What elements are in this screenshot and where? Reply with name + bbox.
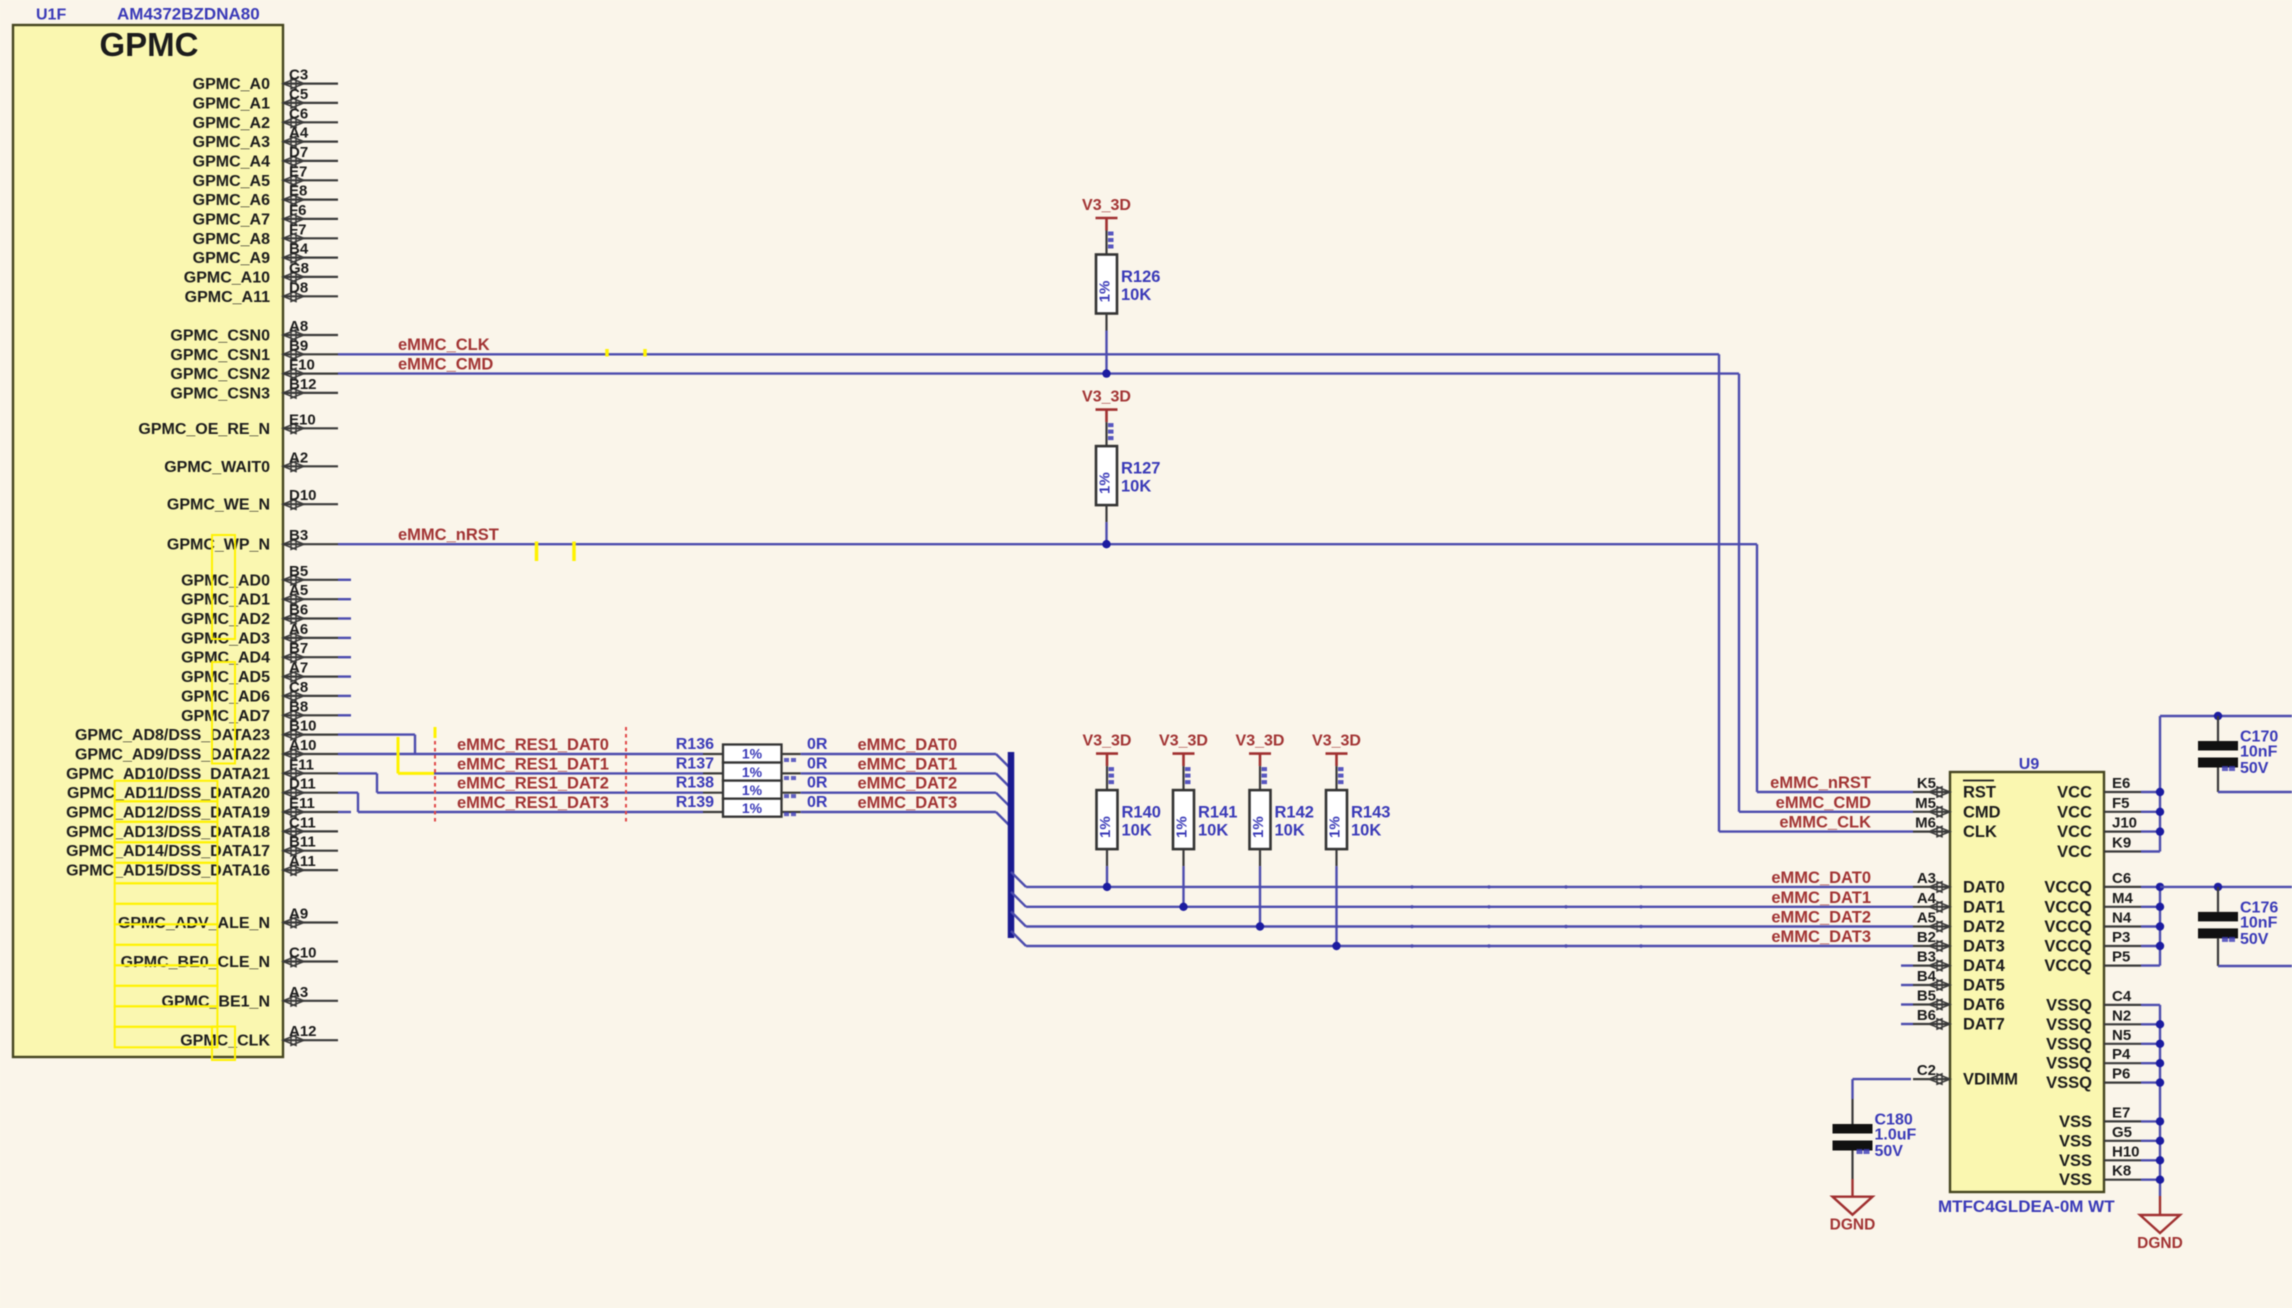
- pin GPMC_AD0 (B5): [181, 563, 338, 590]
- svg-text:C10: C10: [289, 945, 317, 962]
- pin GPMC_AD10/DSS_DATA21 (F11): [66, 756, 338, 783]
- svg-text:K5: K5: [1917, 775, 1936, 792]
- wire stub on GPMC_AD1: [338, 598, 351, 600]
- svg-text:E10: E10: [289, 411, 316, 428]
- svg-text:GPMC_CSN1: GPMC_CSN1: [170, 347, 270, 364]
- svg-text:V3_3D: V3_3D: [1312, 733, 1361, 750]
- svg-text:E8: E8: [289, 183, 307, 200]
- svg-text:VCC: VCC: [2057, 823, 2092, 841]
- svg-text:V3_3D: V3_3D: [1082, 197, 1131, 214]
- svg-text:J10: J10: [2112, 815, 2137, 832]
- wire VCC net vertical: [2141, 791, 2160, 793]
- svg-text:0R: 0R: [807, 775, 828, 792]
- svg-text:10nF: 10nF: [2240, 744, 2278, 761]
- svg-text:C6: C6: [289, 105, 308, 122]
- svg-text:E6: E6: [2112, 775, 2130, 792]
- svg-text:10nF: 10nF: [2240, 914, 2278, 931]
- svg-text:D10: D10: [289, 487, 317, 504]
- pin GPMC_ADV_ALE_N (A9): [118, 906, 338, 933]
- wire VCCQ to right edge: [2160, 886, 2292, 888]
- pin GPMC_A4 (D7): [193, 144, 338, 171]
- U9 pin VSSQ (N2): [2046, 1007, 2141, 1034]
- wire VDIMM to C180: [1853, 1078, 1912, 1080]
- U9 pin VSS (G5): [2059, 1124, 2141, 1151]
- wire eMMC_RES1_DAT2 from GPMC_AD10: [338, 772, 377, 774]
- U9 pin VSS (H10): [2059, 1143, 2141, 1170]
- svg-text:0R: 0R: [807, 736, 828, 753]
- pin GPMC_AD2 (B6): [181, 602, 338, 629]
- pin GPMC_WP_N (B3): [167, 527, 338, 554]
- pin GPMC_A11 (D8): [185, 279, 338, 306]
- svg-text:D8: D8: [289, 279, 308, 296]
- svg-text:A4: A4: [1917, 890, 1937, 907]
- svg-text:1%: 1%: [742, 782, 763, 798]
- U9 pin VCC (E6): [2057, 775, 2141, 802]
- svg-text:R139: R139: [676, 794, 714, 811]
- svg-text:VSSQ: VSSQ: [2046, 1074, 2092, 1092]
- pin GPMC_AD3 (A6): [181, 621, 338, 648]
- svg-text:10K: 10K: [1121, 286, 1151, 304]
- svg-text:K8: K8: [2112, 1163, 2131, 1180]
- U9 pin VCCQ (C6): [2044, 870, 2141, 897]
- svg-text:GPMC_WE_N: GPMC_WE_N: [167, 497, 270, 514]
- U9 pin VCCQ (M4): [2044, 890, 2141, 917]
- pin GPMC_CSN2 (F10): [170, 357, 338, 384]
- svg-text:DGND: DGND: [2137, 1235, 2183, 1252]
- svg-text:GPMC_A11: GPMC_A11: [185, 289, 270, 306]
- svg-text:F10: F10: [289, 357, 315, 374]
- ground DGND at U9: [2159, 1196, 2161, 1215]
- U9 pin VCCQ (P3): [2044, 929, 2141, 956]
- pin GPMC_A10 (G8): [184, 260, 338, 287]
- U9 pin VSSQ (C4): [2046, 988, 2141, 1015]
- pin GPMC_A1 (C5): [193, 86, 338, 113]
- pin GPMC_AD7 (B8): [181, 698, 338, 725]
- svg-text:DAT5: DAT5: [1963, 977, 2005, 995]
- svg-text:B6: B6: [1917, 1007, 1936, 1024]
- resistor R143 10K pull-up on eMMC_DAT3 with V3_3D: [1312, 733, 1390, 951]
- svg-text:eMMC_RES1_DAT2: eMMC_RES1_DAT2: [457, 775, 609, 793]
- U9 pin VSSQ (P6): [2046, 1066, 2141, 1093]
- resistor R136 0R series: [676, 736, 828, 763]
- U9 pin VCC (K9): [2057, 835, 2141, 862]
- svg-text:B3: B3: [289, 527, 308, 544]
- pin GPMC_A3 (A4): [193, 125, 338, 152]
- svg-text:C6: C6: [2112, 870, 2131, 887]
- pin GPMC_A6 (E8): [193, 183, 338, 210]
- svg-text:1%: 1%: [742, 764, 763, 780]
- svg-text:eMMC_DAT2: eMMC_DAT2: [1771, 909, 1871, 927]
- U9 pin DAT5 (B4): [1913, 968, 2005, 995]
- U9 pin VCC (J10): [2057, 815, 2141, 842]
- svg-text:C5: C5: [289, 86, 308, 103]
- svg-text:F5: F5: [2112, 795, 2130, 812]
- svg-text:GPMC_WAIT0: GPMC_WAIT0: [164, 459, 270, 476]
- wire eMMC_RES1_DAT1 from GPMC_AD9 (highlighted jog): [338, 753, 415, 755]
- svg-text:F7: F7: [289, 221, 307, 238]
- pin GPMC_AD13/DSS_DATA18 (C11): [66, 814, 338, 841]
- svg-text:10K: 10K: [1198, 822, 1228, 840]
- svg-text:DAT2: DAT2: [1963, 918, 2005, 936]
- svg-text:VDIMM: VDIMM: [1963, 1071, 2018, 1089]
- wire from C176 bottom to right edge: [2218, 965, 2292, 967]
- svg-text:B5: B5: [289, 563, 308, 580]
- resistor R138 0R series: [676, 775, 828, 799]
- svg-text:GPMC: GPMC: [100, 26, 199, 63]
- U9 pin CMD (M5): [1913, 795, 2001, 822]
- svg-text:A4: A4: [289, 125, 309, 142]
- svg-text:VSS: VSS: [2059, 1152, 2092, 1170]
- U9 pin VCC (F5): [2057, 795, 2141, 822]
- svg-text:GPMC_AD5: GPMC_AD5: [181, 669, 270, 686]
- svg-text:E11: E11: [289, 795, 315, 812]
- svg-text:10K: 10K: [1275, 822, 1305, 840]
- junction dots VSSQ/VSS: [2156, 1020, 2164, 1028]
- svg-text:C8: C8: [289, 679, 308, 696]
- svg-text:C11: C11: [289, 814, 316, 831]
- IC block U1F GPMC (AM4372BZDNA80): [13, 25, 283, 1057]
- svg-text:GPMC_AD1: GPMC_AD1: [181, 592, 270, 609]
- pin GPMC_AD15/DSS_DATA16 (A11): [66, 853, 338, 880]
- resistor R141 10K pull-up on eMMC_DAT1 with V3_3D: [1159, 733, 1237, 911]
- bus bar (thick vertical): [1008, 752, 1015, 938]
- svg-text:eMMC_RES1_DAT0: eMMC_RES1_DAT0: [457, 736, 609, 754]
- svg-text:R126: R126: [1121, 268, 1160, 286]
- svg-text:CLK: CLK: [1963, 823, 1997, 841]
- svg-text:AM4372BZDNA80: AM4372BZDNA80: [117, 5, 260, 24]
- capacitor C176 10nF 50V: [2198, 887, 2278, 966]
- svg-text:DAT3: DAT3: [1963, 938, 2005, 956]
- svg-text:0R: 0R: [807, 794, 828, 811]
- svg-text:eMMC_CMD: eMMC_CMD: [1776, 794, 1871, 812]
- wire eMMC_DAT3 from bus to U9: [1011, 931, 1026, 946]
- svg-text:D11: D11: [289, 776, 316, 793]
- pin GPMC_AD14/DSS_DATA17 (B11): [66, 834, 338, 861]
- svg-text:GPMC_A3: GPMC_A3: [193, 134, 270, 151]
- svg-text:D7: D7: [289, 144, 308, 161]
- pin GPMC_A9 (B4): [193, 241, 338, 268]
- svg-text:GPMC_A4: GPMC_A4: [193, 153, 270, 170]
- svg-text:P3: P3: [2112, 929, 2130, 946]
- svg-text:eMMC_nRST: eMMC_nRST: [1770, 774, 1871, 792]
- svg-text:VSS: VSS: [2059, 1132, 2092, 1150]
- svg-text:B7: B7: [289, 640, 308, 657]
- svg-text:B9: B9: [289, 337, 308, 354]
- svg-text:VCCQ: VCCQ: [2044, 957, 2092, 975]
- svg-text:B4: B4: [289, 241, 309, 258]
- pin GPMC_WAIT0 (A2): [164, 449, 338, 476]
- svg-text:N4: N4: [2112, 910, 2132, 927]
- U9 pin DAT7 (B6): [1913, 1007, 2005, 1034]
- pin GPMC_A2 (C6): [193, 105, 338, 132]
- wire eMMC_DAT2 from bus to U9: [1011, 912, 1026, 927]
- U9 pin RST (K5): [1913, 775, 1996, 802]
- pin GPMC_A8 (F7): [193, 221, 338, 248]
- svg-text:P6: P6: [2112, 1066, 2130, 1083]
- svg-text:GPMC_WP_N: GPMC_WP_N: [167, 537, 270, 554]
- capacitor C170 10nF 50V: [2198, 716, 2278, 792]
- svg-text:GPMC_A8: GPMC_A8: [193, 231, 270, 248]
- svg-text:B5: B5: [1917, 988, 1936, 1005]
- svg-text:R136: R136: [676, 736, 714, 753]
- svg-text:1%: 1%: [1097, 472, 1114, 494]
- svg-text:10K: 10K: [1122, 822, 1152, 840]
- svg-text:GPMC_CSN3: GPMC_CSN3: [170, 385, 270, 402]
- svg-text:A10: A10: [289, 737, 317, 754]
- svg-text:M5: M5: [1915, 795, 1936, 812]
- svg-text:RST: RST: [1963, 784, 1996, 802]
- svg-text:G5: G5: [2112, 1124, 2132, 1141]
- svg-text:GPMC_AD12/DSS_DATA19: GPMC_AD12/DSS_DATA19: [66, 805, 270, 822]
- svg-text:R141: R141: [1198, 804, 1237, 822]
- junction dots VCC: [2156, 788, 2164, 796]
- svg-text:VSSQ: VSSQ: [2046, 1055, 2092, 1073]
- svg-text:DGND: DGND: [1830, 1217, 1876, 1234]
- svg-text:eMMC_RES1_DAT1: eMMC_RES1_DAT1: [457, 755, 609, 773]
- U9 pin VSSQ (N5): [2046, 1027, 2141, 1054]
- pin GPMC_CSN3 (B12): [170, 376, 338, 403]
- resistor R127 10K pull-up on eMMC_nRST with V3_3D: [1082, 389, 1160, 549]
- U9 pin VDIMM (C2): [1913, 1062, 2018, 1089]
- svg-text:P4: P4: [2112, 1046, 2131, 1063]
- svg-text:B2: B2: [1917, 929, 1936, 946]
- svg-text:GPMC_AD15/DSS_DATA16: GPMC_AD15/DSS_DATA16: [66, 863, 270, 880]
- svg-text:A11: A11: [289, 853, 316, 870]
- svg-text:10K: 10K: [1351, 822, 1381, 840]
- U9 pin CLK (M6): [1913, 815, 1997, 842]
- svg-text:GPMC_A7: GPMC_A7: [193, 211, 270, 228]
- junction dots VCCQ: [2156, 883, 2164, 891]
- svg-text:N5: N5: [2112, 1027, 2131, 1044]
- svg-text:U1F: U1F: [36, 7, 66, 24]
- wire VCCQ net vertical: [2141, 886, 2160, 888]
- svg-text:R138: R138: [676, 775, 714, 792]
- pin GPMC_A7 (F6): [193, 202, 338, 229]
- svg-text:10K: 10K: [1121, 478, 1151, 496]
- svg-text:VCCQ: VCCQ: [2044, 938, 2092, 956]
- highlight strip (yellow) over GPMC_WP_N..AD3 names: [212, 535, 235, 639]
- svg-text:V3_3D: V3_3D: [1159, 733, 1208, 750]
- svg-text:DAT0: DAT0: [1963, 878, 2005, 896]
- svg-text:eMMC_DAT0: eMMC_DAT0: [858, 736, 958, 754]
- wire eMMC_CMD from GPMC_CSN2: [338, 372, 1739, 374]
- svg-text:GPMC_OE_RE_N: GPMC_OE_RE_N: [138, 421, 270, 438]
- svg-text:A2: A2: [289, 449, 308, 466]
- svg-text:GPMC_A5: GPMC_A5: [193, 173, 270, 190]
- svg-text:C4: C4: [2112, 988, 2132, 1005]
- svg-text:A3: A3: [289, 984, 308, 1001]
- svg-text:VCC: VCC: [2057, 784, 2092, 802]
- U9 pin VSS (E7): [2059, 1104, 2141, 1131]
- svg-text:eMMC_nRST: eMMC_nRST: [398, 526, 499, 544]
- svg-text:B6: B6: [289, 602, 308, 619]
- pin GPMC_WE_N (D10): [167, 487, 338, 514]
- svg-text:VSSQ: VSSQ: [2046, 996, 2092, 1014]
- svg-text:50V: 50V: [1875, 1143, 1904, 1160]
- wire eMMC_nRST from GPMC_WP_N: [338, 543, 1757, 545]
- svg-text:A3: A3: [1917, 870, 1936, 887]
- svg-text:VCCQ: VCCQ: [2044, 918, 2092, 936]
- svg-text:R127: R127: [1121, 460, 1160, 478]
- wires from 0R resistors into bus: [801, 753, 996, 755]
- wire eMMC_RES1_DAT0 from GPMC_AD8: [338, 733, 415, 735]
- svg-text:VCC: VCC: [2057, 843, 2092, 861]
- svg-text:eMMC_RES1_DAT3: eMMC_RES1_DAT3: [457, 794, 609, 812]
- svg-text:GPMC_CSN2: GPMC_CSN2: [170, 366, 270, 383]
- svg-text:GPMC_AD13/DSS_DATA18: GPMC_AD13/DSS_DATA18: [66, 824, 270, 841]
- svg-text:R143: R143: [1351, 804, 1390, 822]
- wire eMMC_CLK from GPMC_CSN1: [338, 353, 1719, 355]
- svg-text:GPMC_AD6: GPMC_AD6: [181, 688, 270, 705]
- U9 pin VSS (K8): [2059, 1163, 2141, 1190]
- svg-text:VSS: VSS: [2059, 1171, 2092, 1189]
- svg-text:H10: H10: [2112, 1143, 2140, 1160]
- pin GPMC_A0 (C3): [193, 67, 338, 94]
- U9 pin DAT1 (A4): [1913, 890, 2005, 917]
- svg-text:GPMC_A6: GPMC_A6: [193, 192, 270, 209]
- svg-text:E7: E7: [289, 163, 307, 180]
- U9 pin DAT2 (A5): [1913, 910, 2005, 937]
- svg-text:M6: M6: [1915, 815, 1936, 832]
- svg-text:eMMC_DAT1: eMMC_DAT1: [858, 755, 958, 773]
- svg-text:B12: B12: [289, 376, 317, 393]
- wire stub on GPMC_AD3: [338, 637, 351, 639]
- highlight strip (yellow) at GPMC block bottom: [212, 1027, 235, 1061]
- ground DGND at C180: [1851, 1179, 1853, 1197]
- svg-text:1%: 1%: [1174, 816, 1191, 838]
- svg-text:0R: 0R: [807, 755, 828, 772]
- pin GPMC_AD12/DSS_DATA19 (E11): [66, 795, 338, 822]
- wire eMMC_DAT0 from bus to U9: [1011, 872, 1026, 887]
- svg-text:DAT6: DAT6: [1963, 996, 2005, 1014]
- svg-text:VCCQ: VCCQ: [2044, 878, 2092, 896]
- svg-text:VSSQ: VSSQ: [2046, 1035, 2092, 1053]
- U9 pin VSSQ (P4): [2046, 1046, 2141, 1073]
- svg-text:A6: A6: [289, 621, 308, 638]
- pin GPMC_AD8/DSS_DATA23 (B10): [75, 718, 338, 745]
- svg-text:DAT1: DAT1: [1963, 898, 2005, 916]
- wire stub on GPMC_AD7: [338, 714, 351, 716]
- highlight box stack (yellow) over GPMC_AD11..CLK rows: [115, 781, 218, 1048]
- svg-text:B4: B4: [1917, 968, 1937, 985]
- wire stub on GPMC_AD4: [338, 656, 351, 658]
- red dashed marker line right: [625, 727, 627, 825]
- svg-text:B3: B3: [1917, 949, 1936, 966]
- pin GPMC_CSN1 (B9): [170, 337, 338, 364]
- pin GPMC_AD6 (C8): [181, 679, 338, 706]
- svg-text:eMMC_DAT3: eMMC_DAT3: [1771, 928, 1871, 946]
- svg-text:CMD: CMD: [1963, 803, 2001, 821]
- resistor R137 0R series: [676, 755, 828, 780]
- pin GPMC_AD11/DSS_DATA20 (D11): [67, 776, 338, 803]
- resistor R142 10K pull-up on eMMC_DAT2 with V3_3D: [1236, 733, 1314, 931]
- svg-text:F6: F6: [289, 202, 307, 219]
- wire VSSQ/VSS net vertical: [2141, 1004, 2160, 1006]
- pin GPMC_BE0_CLE_N (C10): [121, 945, 338, 972]
- svg-text:eMMC_DAT0: eMMC_DAT0: [1771, 869, 1871, 887]
- resistor R126 10K pull-up on eMMC_CMD with V3_3D: [1082, 197, 1160, 378]
- svg-text:DAT7: DAT7: [1963, 1016, 2005, 1034]
- dangling stubs on DAT4-7: [1901, 964, 1913, 966]
- svg-text:R140: R140: [1122, 804, 1161, 822]
- svg-text:GPMC_A2: GPMC_A2: [193, 115, 270, 132]
- svg-text:eMMC_CMD: eMMC_CMD: [398, 356, 493, 374]
- svg-text:B11: B11: [289, 834, 316, 851]
- wire eMMC_RES1_DAT3 from GPMC_AD11: [338, 792, 358, 794]
- wire stub on GPMC_AD12: [338, 811, 351, 813]
- svg-text:P5: P5: [2112, 949, 2130, 966]
- svg-text:1%: 1%: [1097, 816, 1114, 838]
- wire stub on GPMC_AD5: [338, 675, 351, 677]
- svg-text:eMMC_DAT3: eMMC_DAT3: [858, 794, 958, 812]
- resistor R140 10K pull-up on eMMC_DAT0 with V3_3D: [1083, 733, 1161, 892]
- svg-text:A5: A5: [1917, 910, 1936, 927]
- svg-text:V3_3D: V3_3D: [1236, 733, 1285, 750]
- svg-text:A5: A5: [289, 582, 308, 599]
- capacitor C180 1.0uF 50V: [1833, 1099, 1917, 1179]
- svg-text:A7: A7: [289, 660, 308, 677]
- svg-text:GPMC_AD0: GPMC_AD0: [181, 572, 270, 589]
- pin GPMC_CSN0 (A8): [170, 318, 338, 345]
- svg-text:V3_3D: V3_3D: [1082, 389, 1131, 406]
- wire stub on GPMC_AD6: [338, 695, 351, 697]
- svg-text:GPMC_CSN0: GPMC_CSN0: [170, 328, 270, 345]
- svg-text:GPMC_BE0_CLE_N: GPMC_BE0_CLE_N: [121, 954, 270, 971]
- pin GPMC_BE1_N (A3): [162, 984, 338, 1011]
- U9 pin DAT4 (B3): [1913, 949, 2006, 976]
- svg-text:GPMC_AD11/DSS_DATA20: GPMC_AD11/DSS_DATA20: [67, 785, 270, 802]
- svg-text:C3: C3: [289, 67, 308, 84]
- wire stub on GPMC_AD2: [338, 617, 351, 619]
- svg-text:eMMC_DAT1: eMMC_DAT1: [1771, 889, 1871, 907]
- pin GPMC_AD5 (A7): [181, 660, 338, 687]
- U9 pin DAT0 (A3): [1913, 870, 2005, 897]
- svg-text:G8: G8: [289, 260, 309, 277]
- svg-text:GPMC_BE1_N: GPMC_BE1_N: [162, 993, 270, 1010]
- highlight strip (yellow) over GPMC_AD5..AD9 names: [212, 662, 235, 764]
- svg-text:50V: 50V: [2240, 760, 2269, 777]
- svg-text:1%: 1%: [1250, 816, 1267, 838]
- U9 pin DAT3 (B2): [1913, 929, 2005, 956]
- svg-text:E7: E7: [2112, 1104, 2130, 1121]
- svg-text:M4: M4: [2112, 890, 2133, 907]
- pin GPMC_AD4 (B7): [181, 640, 338, 667]
- svg-text:F11: F11: [289, 756, 314, 773]
- svg-text:GPMC_AD7: GPMC_AD7: [181, 708, 270, 725]
- svg-text:50V: 50V: [2240, 931, 2269, 948]
- svg-text:A8: A8: [289, 318, 308, 335]
- svg-text:1.0uF: 1.0uF: [1875, 1127, 1917, 1144]
- svg-text:GPMC_AD9/DSS_DATA22: GPMC_AD9/DSS_DATA22: [75, 747, 270, 764]
- IC block U9 eMMC (MTFC4GLDEA-0M WT): [1950, 772, 2104, 1192]
- svg-text:1%: 1%: [742, 800, 763, 816]
- svg-text:N2: N2: [2112, 1007, 2131, 1024]
- svg-text:VSSQ: VSSQ: [2046, 1016, 2092, 1034]
- svg-text:K9: K9: [2112, 835, 2131, 852]
- svg-text:B10: B10: [289, 718, 317, 735]
- svg-text:GPMC_AD2: GPMC_AD2: [181, 611, 270, 628]
- svg-text:DAT4: DAT4: [1963, 957, 2006, 975]
- svg-text:GPMC_AD4: GPMC_AD4: [181, 650, 270, 667]
- svg-text:GPMC_A10: GPMC_A10: [184, 269, 270, 286]
- wire eMMC_DAT1 from bus to U9: [1011, 892, 1026, 907]
- svg-text:VSS: VSS: [2059, 1113, 2092, 1131]
- pin GPMC_AD1 (A5): [181, 582, 338, 609]
- svg-text:R137: R137: [676, 755, 714, 772]
- svg-text:B8: B8: [289, 698, 308, 715]
- svg-text:GPMC_AD14/DSS_DATA17: GPMC_AD14/DSS_DATA17: [66, 843, 270, 860]
- svg-text:1%: 1%: [1327, 816, 1344, 838]
